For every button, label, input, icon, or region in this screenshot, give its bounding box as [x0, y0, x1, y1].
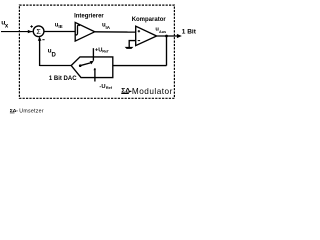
svg-text:IA: IA	[106, 25, 111, 30]
svg-text:Σ: Σ	[36, 27, 41, 36]
svg-text:1 Bit DAC: 1 Bit DAC	[49, 76, 77, 82]
svg-text:Komparator: Komparator	[132, 17, 167, 23]
svg-text:Ref: Ref	[106, 86, 113, 90]
svg-text:-U: -U	[99, 84, 105, 90]
svg-text:x: x	[5, 24, 9, 30]
svg-text:Ref: Ref	[102, 49, 109, 53]
svg-text:Integrierer: Integrierer	[74, 14, 104, 20]
svg-text:1 Bit: 1 Bit	[182, 28, 197, 35]
svg-text:Modulator: Modulator	[132, 87, 173, 96]
svg-text:Aus: Aus	[159, 30, 166, 34]
svg-text:Umsetzer: Umsetzer	[19, 109, 44, 115]
svg-text:IE: IE	[58, 24, 62, 29]
svg-text:D: D	[52, 53, 57, 59]
